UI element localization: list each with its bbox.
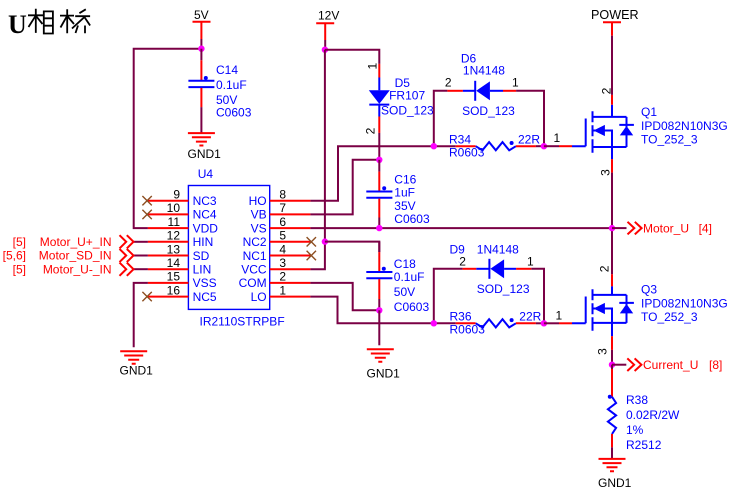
node C18 bottom junction [376, 307, 382, 313]
Q1 substrate arrow [593, 131, 613, 148]
svg-text:NC4: NC4 [193, 208, 217, 222]
node R36 right junction [541, 320, 547, 326]
svg-text:Motor_SD_IN: Motor_SD_IN [39, 249, 112, 263]
pin 1 D6 [503, 90, 516, 92]
svg-text:SOD_123: SOD_123 [381, 104, 434, 118]
svg-text:GND1: GND1 [598, 476, 632, 490]
wire HO to R34 [310, 146, 433, 201]
node Motor_U junction [609, 225, 615, 231]
svg-text:C0603: C0603 [216, 106, 252, 120]
Q3 body diode [619, 295, 634, 323]
transistor Q1 [572, 87, 728, 228]
Q3 drain [593, 286, 627, 295]
svg-text:NC5: NC5 [193, 290, 217, 304]
svg-text:LIN: LIN [193, 263, 212, 277]
wire 12V down to VCC pin [310, 50, 325, 270]
svg-text:R0603: R0603 [449, 146, 485, 160]
hanzi 相 : 目 part [44, 11, 53, 33]
pin 2 C18 [378, 279, 380, 299]
D5 cathode bar [369, 104, 389, 106]
diode D5 [363, 63, 434, 160]
svg-text:GND1: GND1 [367, 367, 401, 381]
Q1 channel segments [592, 111, 594, 153]
pin 2 C16 [378, 199, 380, 218]
svg-text:11: 11 [168, 215, 181, 229]
svg-text:Motor_U+_IN: Motor_U+_IN [40, 235, 112, 249]
svg-text:14: 14 [167, 256, 181, 270]
svg-text:1N4148: 1N4148 [477, 243, 519, 257]
wire LO to R36 [310, 297, 433, 324]
svg-text:HO: HO [249, 194, 267, 208]
Q1 drain [593, 105, 627, 117]
Q1 body diode [619, 117, 634, 147]
Q3 gate electrode [572, 297, 586, 324]
U4 left pin numbers [167, 188, 181, 298]
svg-text:12V: 12V [318, 9, 339, 23]
no-connect X pin 9 [142, 196, 151, 205]
svg-text:R34: R34 [449, 133, 471, 147]
svg-text:[5]: [5] [13, 262, 26, 276]
pin 1 C16 [378, 172, 380, 191]
wire R36 right [536, 322, 544, 324]
title U相桥 [8, 9, 90, 39]
svg-text:Motor_U-_IN: Motor_U-_IN [43, 262, 112, 276]
wire loop right vertical upper [516, 91, 544, 146]
capacitor C18 [366, 242, 429, 346]
pin 2 C14 [200, 88, 202, 107]
svg-text:5: 5 [279, 229, 286, 243]
resistor R36 [431, 309, 572, 337]
D9 triangle [490, 259, 504, 278]
pin 1 D5 [378, 64, 380, 78]
svg-text:NC3: NC3 [193, 194, 217, 208]
power 12V [310, 9, 379, 270]
wire Q3 source to Current_U node [611, 350, 613, 365]
svg-text:C14: C14 [216, 63, 238, 77]
wire to port [612, 364, 626, 366]
input ports [3, 235, 148, 276]
svg-text:3: 3 [596, 348, 610, 355]
port Motor_U+_IN [120, 235, 134, 248]
node 5V junction [198, 46, 204, 52]
hanzi 相 : 木 radical [28, 9, 43, 33]
wire 5V to junction [200, 39, 202, 49]
R38 zigzag [608, 397, 616, 434]
svg-text:COM: COM [239, 276, 267, 290]
svg-text:C18: C18 [394, 257, 416, 271]
svg-text:22R: 22R [519, 310, 541, 324]
ground GND1 under C18 [367, 349, 401, 380]
svg-text:2: 2 [459, 255, 466, 269]
pin 1 C18 [378, 252, 380, 271]
wire junction to C14 [200, 49, 202, 61]
svg-text:VS: VS [251, 221, 267, 235]
capacitor C16 [366, 157, 430, 232]
wire HIN port [134, 241, 148, 243]
node C16 bottom junction [376, 225, 382, 231]
svg-text:1: 1 [279, 283, 286, 297]
wire to port [612, 227, 627, 229]
wire loop left vertical lower [434, 269, 463, 324]
svg-text:IPD082N10N3G: IPD082N10N3G [641, 119, 728, 133]
wire Q1 source to Motor_U node [611, 173, 613, 229]
ground GND1 under VSS [120, 351, 154, 377]
svg-text:2: 2 [445, 76, 452, 90]
svg-text:GND1: GND1 [120, 364, 154, 378]
svg-text:22R: 22R [518, 133, 540, 147]
diode D9 [434, 243, 544, 324]
svg-text:0.02R/2W: 0.02R/2W [626, 408, 680, 422]
hanzi 桥 : 乔 part [72, 9, 90, 33]
svg-text:10: 10 [167, 201, 181, 215]
svg-text:2: 2 [598, 265, 612, 272]
resistor R38 [608, 365, 680, 459]
Q3 channel segments [592, 289, 594, 331]
svg-text:[5,6]: [5,6] [3, 249, 26, 263]
port Motor_SD_IN [120, 249, 134, 262]
svg-text:R38: R38 [626, 393, 648, 407]
node Current_U junction [609, 362, 615, 368]
svg-text:6: 6 [279, 215, 286, 229]
hanzi 桥 : 木 radical [60, 9, 74, 33]
capacitor C14 [188, 49, 251, 133]
pin 2 Q1 drain stub [611, 95, 613, 105]
node R34 left junction [431, 143, 437, 149]
svg-text:HIN: HIN [193, 235, 214, 249]
svg-text:2: 2 [279, 270, 286, 284]
svg-text:R2512: R2512 [626, 438, 662, 452]
wire 12V to D5 column [325, 50, 379, 64]
svg-text:1: 1 [366, 63, 380, 70]
svg-text:VCC: VCC [241, 263, 267, 277]
svg-text:1uF: 1uF [394, 186, 415, 200]
wire to Q1 gate [544, 145, 559, 147]
pin 2 D9 [463, 268, 477, 270]
D9 cathode bar [488, 259, 490, 279]
svg-text:GND1: GND1 [188, 147, 222, 161]
svg-text:2: 2 [363, 127, 377, 134]
svg-text:R0603: R0603 [450, 323, 486, 337]
D6 triangle [476, 81, 490, 100]
no-connect X pin 16 [142, 292, 151, 301]
svg-text:[8]: [8] [709, 358, 722, 372]
U4 left pin names [193, 194, 219, 304]
wire R34 right [536, 145, 544, 147]
D5 triangle [369, 90, 390, 104]
svg-text:C0603: C0603 [394, 300, 430, 314]
svg-text:IR2110STRPBF: IR2110STRPBF [200, 315, 285, 329]
svg-text:FR107: FR107 [389, 89, 425, 103]
svg-text:1: 1 [554, 131, 561, 145]
svg-text:5V: 5V [194, 8, 209, 22]
wire R34 left [434, 145, 456, 147]
svg-text:IPD082N10N3G: IPD082N10N3G [641, 297, 728, 311]
transistor Q3 [572, 228, 728, 365]
svg-text:12: 12 [167, 229, 181, 243]
svg-text:35V: 35V [394, 199, 415, 213]
svg-text:16: 16 [167, 283, 181, 297]
svg-text:9: 9 [173, 188, 180, 202]
wire VSS to ground [134, 283, 148, 347]
svg-text:U4: U4 [198, 167, 214, 181]
node R34 right junction [541, 143, 547, 149]
node C16 top junction [376, 157, 382, 163]
wire D5 to C16 [378, 133, 380, 160]
pin 1 R38 [611, 369, 613, 397]
svg-text:TO_252_3: TO_252_3 [641, 133, 698, 147]
wire Motor_U node to Q3 drain [611, 228, 613, 274]
diode D6 [434, 52, 544, 147]
wire loop left vertical upper [434, 91, 448, 146]
svg-text:VSS: VSS [193, 276, 217, 290]
port Motor_U-_IN [120, 263, 134, 276]
svg-text:Motor_U: Motor_U [643, 222, 689, 236]
power POWER [591, 8, 639, 95]
svg-text:15: 15 [167, 270, 181, 284]
svg-text:NC2: NC2 [243, 235, 267, 249]
no-connect X pin 4 NC1 [307, 251, 316, 260]
Q1 gate electrode [572, 119, 586, 147]
U4 right pins [270, 201, 311, 297]
svg-text:4: 4 [279, 242, 286, 256]
svg-text:0.1uF: 0.1uF [394, 270, 425, 284]
pin 2 Q3 drain stub [611, 274, 613, 286]
pin 2 D6 [447, 90, 463, 92]
pin 2 R38 [611, 434, 613, 447]
svg-text:3: 3 [279, 256, 286, 270]
wire 12V branch to C18 [325, 242, 379, 253]
wire POWER to Q1 drain [611, 36, 613, 95]
svg-text:1N4148: 1N4148 [463, 64, 505, 78]
wire C14 to ground [200, 107, 202, 133]
svg-text:3: 3 [599, 169, 613, 176]
wire LIN port [134, 268, 148, 270]
plates [188, 81, 214, 87]
pin 3 Q3 source stub [611, 336, 613, 350]
svg-text:R36: R36 [450, 310, 472, 324]
svg-text:1: 1 [527, 255, 534, 269]
svg-text:Current_U: Current_U [643, 358, 698, 372]
R36 zigzag [476, 319, 516, 327]
svg-text:Q1: Q1 [641, 105, 657, 119]
svg-text:SOD_123: SOD_123 [462, 104, 515, 118]
svg-text:LO: LO [251, 290, 267, 304]
svg-text:[4]: [4] [699, 222, 712, 236]
pin 3 Q1 source stub [611, 159, 613, 173]
ground GND1 under R38 [598, 459, 632, 490]
pin 1 C14 [200, 60, 202, 80]
svg-text:VB: VB [251, 208, 267, 222]
Q1 source [593, 147, 627, 159]
pin 1 D9 [516, 268, 531, 270]
wire 5V row to VDD column [134, 49, 202, 228]
wire loop right vertical lower [531, 269, 544, 324]
wire to Q3 gate [544, 322, 559, 324]
no-connect X pin 10 [142, 210, 151, 219]
pin 2 D5 [378, 117, 380, 133]
svg-text:0.1uF: 0.1uF [216, 78, 247, 92]
U4 right pin names [239, 194, 267, 304]
svg-text:50V: 50V [394, 285, 415, 299]
svg-text:7: 7 [279, 201, 286, 215]
wire VB to C16 top [310, 160, 379, 215]
op-amp U4 body [188, 167, 284, 329]
svg-text:[5]: [5] [13, 235, 26, 249]
wire R36 left [434, 322, 456, 324]
Q3 source [593, 323, 627, 336]
no-connect X pin 5 NC2 [307, 237, 316, 246]
wire VS to Motor_U node [310, 227, 612, 229]
wire SD port [134, 255, 148, 257]
svg-text:C16: C16 [394, 173, 416, 187]
svg-text:TO_252_3: TO_252_3 [641, 310, 698, 324]
U4 right pin numbers [279, 188, 286, 298]
svg-text:U: U [8, 10, 27, 39]
U4 left pins [148, 201, 189, 297]
svg-text:1: 1 [556, 309, 563, 323]
port Current_U [609, 358, 723, 372]
svg-text:NC1: NC1 [243, 249, 267, 263]
power 5V [134, 8, 211, 228]
svg-text:1: 1 [512, 76, 519, 90]
resistor R34 [431, 131, 572, 160]
wire 12V to junction [324, 40, 326, 50]
svg-text:VDD: VDD [193, 221, 219, 235]
svg-text:13: 13 [167, 242, 181, 256]
node 12V junction [322, 47, 328, 53]
svg-text:C0603: C0603 [394, 212, 430, 226]
wire COM to GND node [310, 283, 379, 310]
svg-text:Q3: Q3 [641, 283, 657, 297]
svg-text:SOD_123: SOD_123 [477, 282, 530, 296]
wire C18 to ground [378, 310, 380, 345]
port Motor_U [609, 222, 712, 236]
node R36 left junction [431, 320, 437, 326]
node VCC/C18 branch junction [322, 238, 328, 244]
R34 zigzag [476, 142, 516, 150]
svg-text:8: 8 [279, 188, 286, 202]
svg-text:POWER: POWER [591, 8, 639, 22]
svg-text:1%: 1% [626, 423, 644, 437]
D6 cathode bar [474, 81, 476, 101]
Q3 substrate arrow [593, 309, 613, 323]
svg-text:SD: SD [193, 249, 210, 263]
ground GND1 under C14 [188, 133, 222, 161]
